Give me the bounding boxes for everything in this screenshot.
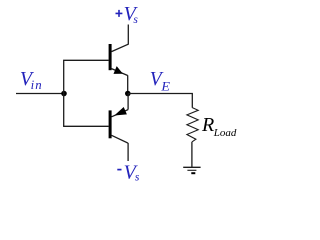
wire: resistor bottom to ground (191, 142, 193, 167)
svg-text:E: E (160, 78, 170, 93)
transistor Q2 emitter arrow (PNP, pointing in) (114, 107, 127, 116)
transistor Q1 emitter arrow (NPN, pointing out) (114, 66, 123, 74)
wire: vertical base split (63, 60, 65, 126)
transistor Q2 collector diagonal (112, 135, 129, 143)
transistor Q1 collector diagonal (112, 44, 129, 51)
wire: Q1 emitter down to output node (127, 75, 129, 93)
wire: input horizontal Vin (16, 93, 64, 95)
resistor RLoad zigzag (187, 108, 198, 142)
wire: Q2 emitter up from node (127, 94, 129, 110)
node VE: output junction dot (125, 91, 131, 97)
wire: Q1 collector up to +Vs (127, 25, 129, 45)
ground (183, 166, 200, 168)
transistor Q1 emitter diagonal (112, 69, 128, 76)
transistor Q1 (NPN) base bar (109, 44, 112, 70)
svg-text:s: s (133, 14, 138, 26)
svg-text:Load: Load (213, 127, 237, 139)
transistor Q2 (PNP) emitter diagonal (112, 110, 129, 117)
wire: Q2 collector down to -Vs (127, 143, 129, 161)
label +Vs plus sign (116, 10, 123, 17)
label -Vs minus sign (117, 169, 121, 171)
svg-text:in: in (31, 78, 43, 92)
node A: input junction dot (61, 91, 67, 97)
wire: lower base wire to Q2 (63, 125, 109, 127)
wire: upper base wire to Q1 (63, 59, 109, 61)
wire: output horizontal to resistor (128, 93, 193, 95)
svg-text:s: s (135, 171, 140, 183)
transistor Q2 (PNP) base bar (109, 110, 112, 138)
svg-text:R: R (201, 114, 214, 136)
wire: down to resistor top (191, 94, 193, 108)
